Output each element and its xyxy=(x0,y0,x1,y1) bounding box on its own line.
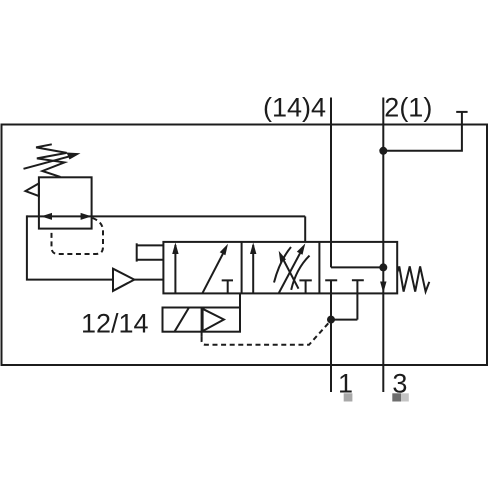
regulator flow line with double arrow xyxy=(27,215,305,217)
square3 down arrow head xyxy=(380,282,386,294)
wire port 2(1)/3 vertical xyxy=(382,98,384,393)
wire solenoid to valve xyxy=(239,293,241,307)
square3 blocked port T2 xyxy=(352,280,364,319)
square2 nozzle arc right xyxy=(291,256,309,290)
square1 up arrow xyxy=(174,245,176,293)
wire amplifier to valve xyxy=(134,279,163,281)
solenoid S1 body xyxy=(163,308,241,332)
square2 nozzle arrow up-left xyxy=(283,259,299,289)
regulator pilot dashed loop xyxy=(52,218,104,254)
square2 blocked port T xyxy=(299,280,311,293)
regulator R1 body xyxy=(39,177,92,228)
node junction in square3 xyxy=(379,263,387,271)
handle square light under 3 xyxy=(401,393,409,401)
wire port (14)4 vertical xyxy=(330,98,332,268)
wire to plugged port xyxy=(383,112,462,151)
valve divider 1 xyxy=(241,242,243,294)
regulator relief triangle xyxy=(26,183,39,196)
valve divider 2 xyxy=(318,242,320,294)
square3 blocked port T1 xyxy=(325,279,337,281)
square3 internal path xyxy=(331,266,383,268)
wire T2 to junction xyxy=(331,319,357,321)
solenoid divider xyxy=(201,308,203,337)
regulator spring xyxy=(36,144,67,177)
pilot port symbol xyxy=(136,243,138,261)
plugged port T xyxy=(456,111,467,113)
svg-text:12/14: 12/14 xyxy=(81,309,149,339)
svg-text:2(1): 2(1) xyxy=(384,93,432,123)
square2 nozzle arc left xyxy=(274,247,291,283)
wire pilot drop to valve xyxy=(304,216,306,242)
enclosure border xyxy=(2,125,488,366)
solenoid amplifier triangle xyxy=(203,309,224,331)
solenoid diagonal xyxy=(175,308,190,332)
square1 blocked port T xyxy=(222,280,233,293)
amplifier triangle xyxy=(113,269,134,291)
valve return spring xyxy=(397,266,429,291)
regulator adjust arrow xyxy=(24,156,73,169)
square2 nozzle arrow up-right xyxy=(279,253,300,293)
square1 diagonal arrow xyxy=(202,248,226,294)
node junction port1 xyxy=(327,316,335,324)
node junction 2(1) xyxy=(379,147,387,155)
dashed pilot wire solenoid to junction xyxy=(202,323,329,345)
handle square dark under 3 xyxy=(392,393,401,401)
square2 up arrow xyxy=(252,245,254,293)
valve body V1 xyxy=(163,242,397,294)
svg-text:(14)4: (14)4 xyxy=(263,93,326,123)
wire regulator left drop xyxy=(27,215,113,279)
handle square under 1 xyxy=(344,393,353,401)
wire port 1 vertical xyxy=(330,280,332,392)
